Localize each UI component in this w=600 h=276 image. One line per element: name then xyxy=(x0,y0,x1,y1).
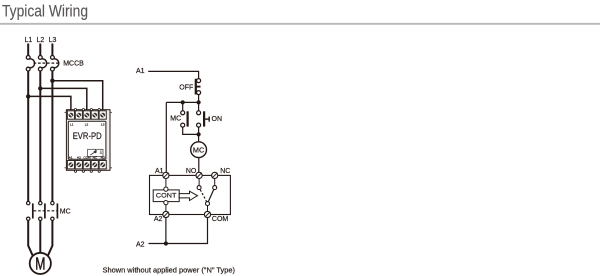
svg-text:L1: L1 xyxy=(25,37,33,44)
EVR-PD bottom edge bumps xyxy=(74,170,100,172)
title rule xyxy=(0,23,600,25)
wire pivot to COM terminal xyxy=(207,206,209,212)
svg-text:L3: L3 xyxy=(49,37,57,44)
terminal NC xyxy=(212,172,218,178)
junction on L1 xyxy=(26,94,30,98)
svg-text:MC: MC xyxy=(170,115,181,122)
EVR-PD printed contact arrow xyxy=(90,151,96,155)
contactor MC pole 1 xyxy=(27,201,33,220)
junction rail / MC branch xyxy=(181,100,185,104)
coil MC xyxy=(191,142,207,158)
svg-text:Shown without applied power (": Shown without applied power ("N" Type) xyxy=(103,267,236,274)
EVR-PD relay unit body xyxy=(65,110,112,171)
CONT block xyxy=(153,187,179,205)
moving contact dashed to NO xyxy=(200,190,207,202)
wire COM terminal down xyxy=(149,218,208,244)
svg-text:M: M xyxy=(35,254,45,274)
circuit breaker MCCB pole 3 xyxy=(51,56,59,72)
svg-text:MCCB: MCCB xyxy=(63,61,84,68)
wire L2 to motor xyxy=(39,221,41,253)
svg-text:NO: NO xyxy=(101,156,106,160)
terminal NO xyxy=(196,172,202,178)
relay output box xyxy=(150,175,231,214)
svg-text:A1: A1 xyxy=(136,68,145,75)
svg-text:COM: COM xyxy=(83,156,91,160)
MCCB mechanical linkage dashed xyxy=(34,62,60,64)
wire NC terminal stub xyxy=(214,179,216,186)
wire A1 terminal to CONT xyxy=(165,179,167,188)
wire MC branch lower xyxy=(183,127,199,134)
junction rail / ON branch xyxy=(197,100,201,104)
EVR-PD printed output contact box xyxy=(88,149,103,156)
contact point NO xyxy=(197,186,201,190)
wire L3 branch to EVR-PD terminal L3 xyxy=(52,81,102,111)
svg-text:A1: A1 xyxy=(155,168,164,175)
pushbutton OFF (NC) xyxy=(196,79,201,95)
auxiliary contact MC (NO) xyxy=(181,111,188,127)
svg-text:ON: ON xyxy=(212,116,223,123)
contactor MC pole 2 xyxy=(39,201,45,220)
wire L1 branch to EVR-PD terminal L1 xyxy=(28,96,71,110)
svg-text:EVR-PD: EVR-PD xyxy=(73,131,102,141)
svg-text:L3: L3 xyxy=(101,122,105,126)
wire A2 terminal down xyxy=(165,218,167,244)
svg-text:OFF: OFF xyxy=(179,85,193,92)
contact pivot COM xyxy=(206,202,210,206)
contactor MC pole 3 xyxy=(51,201,58,220)
moving contact solid to NC xyxy=(208,190,213,202)
terminal COM xyxy=(204,211,210,217)
wire CONT to A2 terminal xyxy=(165,205,167,212)
svg-text:NC: NC xyxy=(93,156,98,160)
wire MC branch upper xyxy=(182,102,184,111)
svg-text:L1: L1 xyxy=(70,122,74,126)
svg-text:NO: NO xyxy=(186,168,197,175)
wire L3 to motor xyxy=(48,221,53,256)
EVR-PD inner face xyxy=(68,121,106,159)
wire coil to relay NO xyxy=(198,158,200,173)
contactor MC linkage dashed xyxy=(34,210,57,212)
actuating arrow xyxy=(179,191,197,200)
svg-text:A1: A1 xyxy=(69,156,73,160)
motor M xyxy=(30,253,51,274)
wire L2 from label to MCCB xyxy=(39,44,41,56)
EVR-PD bottom terminal screws xyxy=(67,161,106,169)
svg-text:CONT: CONT xyxy=(156,193,177,200)
wire L2 vertical main xyxy=(39,71,41,202)
wire L3 from label to MCCB xyxy=(51,44,53,56)
wire L2 branch to EVR-PD terminal L2 xyxy=(40,88,87,110)
wire ON to coil xyxy=(198,127,200,142)
wire OFF to rail xyxy=(198,95,200,103)
svg-text:A2: A2 xyxy=(77,156,81,160)
svg-text:L2: L2 xyxy=(37,37,45,44)
svg-text:MC: MC xyxy=(193,145,204,154)
junction on L3 xyxy=(50,79,54,83)
wire NO terminal stub xyxy=(198,179,200,186)
contact point NC xyxy=(213,186,217,190)
svg-text:A2: A2 xyxy=(136,241,145,248)
svg-text:L2: L2 xyxy=(85,122,89,126)
pushbutton ON (NO) xyxy=(197,111,210,127)
svg-text:A2: A2 xyxy=(154,216,163,223)
svg-text:Typical Wiring: Typical Wiring xyxy=(2,3,88,21)
wire A1 to OFF button xyxy=(148,71,198,78)
wire L1 vertical main xyxy=(27,71,29,202)
wire ON branch upper xyxy=(198,102,200,111)
circuit breaker MCCB pole 1 xyxy=(26,56,34,72)
EVR-PD top edge notches xyxy=(74,109,100,111)
wire L1 from label to MCCB xyxy=(27,44,29,56)
wire L3 vertical main xyxy=(51,71,53,202)
svg-text:MC: MC xyxy=(60,208,71,215)
wire L1 to motor xyxy=(28,221,33,256)
junction coil branch xyxy=(197,132,201,136)
svg-text:NC: NC xyxy=(220,168,230,175)
svg-text:COM: COM xyxy=(212,216,229,223)
terminal A1 xyxy=(163,172,169,178)
circuit breaker MCCB pole 2 xyxy=(38,56,46,72)
terminal A2 xyxy=(163,211,169,217)
junction on L2 xyxy=(38,86,42,90)
wire control rail horizontal xyxy=(166,101,198,103)
junction A2 xyxy=(164,241,168,245)
EVR-PD top terminal screws L1 L2 L3 xyxy=(67,111,106,119)
wire left rail down to relay A1 xyxy=(165,102,167,172)
